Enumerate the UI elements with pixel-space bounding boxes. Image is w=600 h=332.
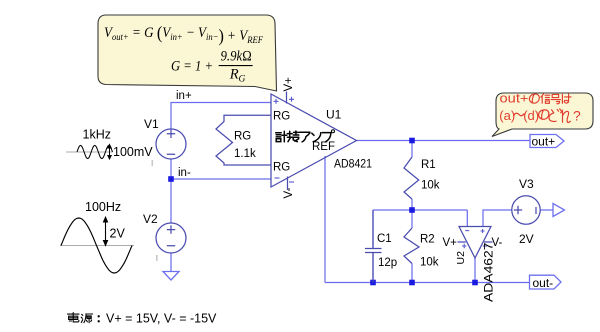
wire R1 top lead: [411, 141, 413, 158]
svg-text:out+: out+: [532, 135, 556, 149]
junction node out+/R1: [409, 138, 415, 144]
svg-text:(a): (a): [499, 108, 515, 123]
op-amp U2 triangle: [459, 227, 491, 259]
svg-text:C1: C1: [377, 233, 392, 245]
junction node U2 out rail: [472, 280, 478, 286]
svg-text:REF: REF: [312, 141, 335, 153]
question line2 kana のどれ: [539, 109, 571, 123]
svg-text:V+ = 15V, V- = -15V: V+ = 15V, V- = -15V: [106, 312, 217, 326]
ground symbol: [163, 272, 179, 281]
svg-text:RG: RG: [234, 131, 251, 143]
AC icon 1kHz baseline: [66, 151, 113, 153]
out- flag: [530, 275, 562, 289]
AC icon 100mV arrow: [108, 145, 111, 160]
resistor R2 zigzag: [404, 228, 419, 264]
wire REF down: [324, 156, 326, 283]
svg-text:10k: 10k: [421, 180, 440, 192]
label 計装アンプ kanji: [276, 131, 331, 142]
svg-text:V1: V1: [144, 117, 159, 131]
junction node R2 rail: [409, 280, 415, 286]
svg-text:V2: V2: [143, 212, 158, 226]
capacitor C1 plates: [365, 210, 382, 283]
voltage source V3 circle: [512, 196, 540, 224]
wire C1 top lead: [372, 210, 374, 248]
bottom note 電源 kanji: [68, 313, 93, 323]
question text line1 kanji の信号は: [529, 94, 571, 104]
wire U2 output lead: [474, 258, 476, 283]
AC icon 1kHz sine: [77, 146, 113, 159]
svg-text:R2: R2: [420, 234, 435, 246]
svg-text:V+: V+: [443, 237, 458, 249]
wire out+: [357, 140, 531, 142]
question callout bubble: [492, 93, 593, 137]
wire bottom rail: [325, 282, 530, 284]
op-amp U1 V- stub: [287, 177, 289, 191]
svg-text:U1: U1: [326, 108, 342, 122]
svg-text:in-: in-: [178, 167, 191, 179]
svg-text:10k: 10k: [420, 257, 439, 269]
svg-text:V-: V-: [283, 187, 295, 198]
bottom note colon: [98, 315, 100, 317]
svg-text:RG: RG: [273, 111, 290, 123]
svg-text:V+: V+: [283, 77, 295, 92]
resistor R1 zigzag: [404, 157, 419, 199]
U2 pin polarity marks: [465, 230, 469, 232]
resistor RG zigzag: [216, 115, 271, 165]
svg-text:AD8421: AD8421: [334, 159, 372, 171]
svg-text:ADA4627: ADA4627: [484, 243, 496, 303]
wire node row to C1 and U2: [373, 210, 467, 227]
wire V3 to port: [540, 209, 553, 211]
svg-text:(d): (d): [523, 108, 539, 123]
wire in-: [171, 178, 271, 180]
svg-text:2V: 2V: [110, 227, 126, 241]
svg-text:100mV: 100mV: [113, 145, 153, 159]
wire R2 top lead: [411, 210, 413, 228]
AC icon 100Hz sine: [61, 218, 132, 273]
wire R1 bottom lead: [411, 199, 413, 210]
wire V2 top lead: [170, 179, 172, 223]
svg-text:V3: V3: [519, 177, 534, 191]
svg-text:G = 1 +: G = 1 +: [171, 59, 213, 75]
formula callout bubble: [98, 15, 277, 91]
wire C1 bottom lead: [372, 253, 374, 283]
svg-text:V-: V-: [492, 237, 503, 249]
junction node R1/R2/C1/U2: [409, 207, 415, 213]
wire R2 bottom lead: [411, 264, 413, 283]
AC icon 2V arrow: [104, 217, 108, 245]
svg-text:out+: out+: [500, 91, 529, 106]
svg-text:2V: 2V: [519, 232, 534, 246]
voltage source V1 circle: [156, 129, 186, 159]
svg-text:?: ?: [573, 108, 581, 124]
junction node C1 rail: [370, 280, 376, 286]
op-amp U1 triangle: [271, 94, 357, 187]
voltage source V2 circle: [156, 223, 186, 253]
U1 pin polarity marks: [274, 97, 488, 248]
faint tick near V1: [152, 160, 154, 166]
wire V1 bottom lead: [170, 159, 172, 179]
svg-text:U2: U2: [455, 251, 467, 265]
svg-text:1kHz: 1kHz: [83, 128, 111, 142]
svg-text:12p: 12p: [378, 257, 397, 269]
svg-text:out-: out-: [533, 276, 554, 290]
junction node in-: [168, 176, 174, 182]
output port arrow of V3: [553, 204, 565, 217]
svg-text:9.9kΩ: 9.9kΩ: [221, 49, 253, 65]
svg-text:RG: RG: [273, 162, 290, 174]
op-amp U2 supply ticks: [458, 241, 493, 243]
op-amp U1 V+ stub: [286, 92, 288, 104]
wire V3 to U2 plus input: [483, 210, 512, 227]
wire in+: [171, 103, 271, 130]
wire V2 bottom lead: [170, 253, 172, 272]
svg-text:1.1k: 1.1k: [234, 148, 256, 160]
out+ flag: [530, 135, 564, 148]
question line2 wave dash: [514, 113, 524, 116]
svg-text:in+: in+: [176, 90, 192, 102]
AC icon 100Hz baseline: [60, 245, 134, 247]
svg-text:100Hz: 100Hz: [85, 200, 121, 214]
faint tick near V2: [156, 255, 158, 261]
svg-text:R1: R1: [421, 159, 436, 171]
